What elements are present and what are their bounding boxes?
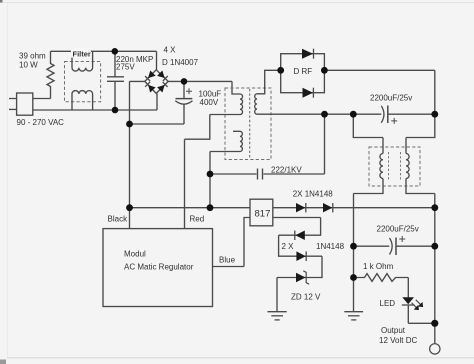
- svg-text:90 - 270 VAC: 90 - 270 VAC: [17, 118, 65, 127]
- svg-text:LED: LED: [380, 299, 396, 308]
- junction 100uF plus rail: [181, 78, 188, 85]
- diode D2 1N4148: [323, 203, 333, 212]
- svg-text:2200uF/25v: 2200uF/25v: [370, 94, 412, 103]
- transformer T1 aux winding: [233, 131, 242, 151]
- svg-text:39 ohm: 39 ohm: [19, 52, 46, 61]
- junction 222 cap left: [207, 171, 214, 178]
- capacitor C3 222/1KV: [210, 169, 325, 180]
- junction +V diode row: [431, 204, 438, 211]
- svg-text:1N4148: 1N4148: [316, 242, 345, 251]
- wire C3 right to secondary 0V rail: [324, 114, 326, 174]
- choke L1 core: [389, 152, 401, 181]
- zener diode ZD 12 V: [296, 271, 309, 284]
- wire bridge minus to Black node: [130, 81, 145, 207]
- LED light arrows: [412, 300, 424, 310]
- junction Y-cap to 0V rail: [321, 111, 328, 118]
- wire bridge plus rail to transformer primary: [168, 81, 240, 94]
- plug P1 90-270 VAC: [9, 93, 33, 115]
- wire 817 output row: [273, 207, 435, 209]
- svg-text:2200uF/25v: 2200uF/25v: [377, 225, 419, 234]
- filter bottom winding: [72, 91, 93, 110]
- wire T1 secondary top to D RF: [257, 70, 281, 94]
- wire T1 aux bottom to Red node: [210, 152, 240, 208]
- svg-text:4 X: 4 X: [164, 46, 177, 55]
- svg-text:817: 817: [255, 208, 271, 219]
- choke L1 right winding: [406, 114, 435, 193]
- capacitor C2 100uF 400V: [175, 81, 192, 124]
- junction D RF cathode: [321, 67, 328, 74]
- wire +V right rail: [434, 194, 436, 344]
- diode D RF bottom: [303, 88, 314, 98]
- wire T1 secondary bottom rail (0V): [257, 113, 381, 115]
- svg-text:D 1N4007: D 1N4007: [162, 58, 199, 67]
- junction +V rail top: [431, 111, 438, 118]
- transformer T1 core: [249, 89, 251, 159]
- wire plug top to resistor: [33, 98, 51, 100]
- capacitor C4 2200uF/25v (top): [381, 106, 435, 124]
- svg-text:222/1KV: 222/1KV: [271, 165, 302, 174]
- junction Black node: [126, 204, 133, 211]
- capacitor C1 220n MKP 275V: [107, 51, 124, 110]
- transformer T1 secondary winding: [255, 94, 257, 114]
- diode D3 1N4148: [295, 231, 305, 241]
- junction C5 left: [350, 243, 357, 250]
- transformer T1 primary winding: [240, 94, 243, 115]
- wire Blue lead to 817: [213, 218, 251, 267]
- LED D5: [402, 278, 435, 324]
- svg-text:10 W: 10 W: [19, 61, 38, 70]
- choke L1 left winding: [353, 114, 383, 193]
- svg-text:Output: Output: [381, 326, 406, 335]
- resistor R1 39 ohm 10 W: [47, 51, 54, 98]
- junction D RF anode: [277, 67, 284, 74]
- svg-text:ZD 12 V: ZD 12 V: [291, 292, 321, 301]
- svg-text:2 X: 2 X: [282, 242, 295, 251]
- output terminal 12 Volt DC: [430, 344, 440, 354]
- svg-text:275V: 275V: [116, 63, 135, 72]
- diode D RF top: [302, 49, 314, 59]
- filter FL1 dashed box: [65, 62, 101, 102]
- wire AC top rail: [51, 51, 157, 70]
- label background Filter: [71, 48, 91, 58]
- junction C5 right: [431, 243, 438, 250]
- wire Black lead: [129, 208, 131, 229]
- capacitor C5 2200uF/25v (output): [354, 236, 435, 255]
- module regulator box: [103, 229, 213, 307]
- diode pair D RF loop: [281, 54, 325, 93]
- wire 100uF bottom to Black rail: [130, 123, 185, 125]
- wire plug bottom (AC neutral): [33, 109, 157, 111]
- junction R2 left: [350, 274, 357, 281]
- svg-text:Blue: Blue: [219, 255, 236, 264]
- wire Red node to 817: [130, 207, 251, 209]
- diode D1 1N4148: [296, 203, 306, 212]
- junction 220n top: [112, 48, 119, 55]
- svg-text:1 k Ohm: 1 k Ohm: [363, 262, 394, 271]
- svg-text:Modul: Modul: [124, 250, 146, 259]
- junction DC minus / 100uF bottom: [126, 121, 133, 128]
- choke L1 dashed box: [369, 147, 420, 186]
- resistor R2 1 k Ohm: [354, 274, 409, 282]
- wire T1 primary bottom to module Red lead: [185, 115, 241, 229]
- ground G1: [268, 312, 287, 320]
- wire secondary ground rail: [353, 194, 355, 312]
- svg-text:Red: Red: [190, 215, 205, 224]
- junction 220n bottom: [112, 107, 119, 114]
- wire D RF output to +V corner: [324, 70, 434, 114]
- svg-text:400V: 400V: [200, 98, 219, 107]
- optocoupler U1 817: [250, 199, 273, 226]
- filter top winding: [72, 51, 93, 71]
- junction 0V rail choke left: [350, 111, 357, 118]
- junction Red node: [207, 204, 214, 211]
- wire bridge AC bottom: [156, 93, 158, 110]
- bridge rectifier 4X D 1N4007: [145, 70, 168, 94]
- ground G2: [344, 312, 363, 320]
- junction LED to output: [431, 320, 438, 327]
- svg-text:AC Matic Regulator: AC Matic Regulator: [124, 262, 194, 271]
- svg-text:12 Volt DC: 12 Volt DC: [379, 336, 417, 345]
- svg-text:Filter: Filter: [73, 50, 91, 59]
- svg-text:2X 1N4148: 2X 1N4148: [293, 189, 334, 198]
- diode D4 1N4148: [296, 251, 306, 261]
- wire 817 lower pin snake: [273, 218, 322, 312]
- svg-text:Black: Black: [108, 215, 129, 224]
- svg-text:D RF: D RF: [294, 67, 313, 76]
- transformer T1 dashed box: [225, 88, 271, 160]
